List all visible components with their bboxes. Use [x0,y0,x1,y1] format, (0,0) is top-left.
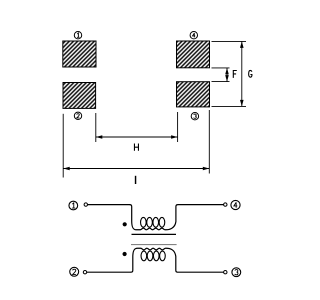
pad label 4 [190,32,197,39]
pad 4 (top-right, hatched) [177,41,210,68]
pad 3 (bottom-right, hatched) [177,82,210,107]
H arrows [96,135,103,139]
dim H line [96,136,178,138]
core line lower [131,244,177,246]
schematic label 1 [69,201,78,210]
pad 2 (bottom-left, hatched) [63,83,96,109]
wire winding 1-4 to pin 4 [178,204,224,206]
wire pin 2 to winding 2-3 [87,271,131,273]
winding 1-4 (top coil) [130,205,178,230]
dim F extension lines [212,67,230,69]
label F [233,71,237,78]
winding 2-3 (bottom coil) [131,248,178,272]
dim I line [63,168,209,170]
schematic label 2 [70,267,79,276]
label G [249,70,252,77]
label H [134,144,138,151]
terminal pin 4 [224,203,227,206]
polarity dot winding 1-4 [123,222,127,226]
terminal pin 2 [83,271,86,274]
dim F line [226,68,228,82]
terminal pin 3 [224,271,227,274]
pad label 1 [74,32,81,39]
dim H extension lines [95,113,97,142]
wire pin 1 to winding 1-4 [88,204,130,206]
pad 1 (top-left, hatched) [63,41,96,67]
core line upper [132,233,177,235]
winding 2-3 loops [141,251,147,261]
schematic label 4 [231,200,240,209]
pad label 2 [74,112,81,119]
dim G line [241,41,243,106]
schematic label 3 [232,268,241,277]
polarity dot winding 2-3 [123,252,127,256]
F arrows [225,68,229,75]
pad label 3 [191,113,198,120]
dim G extension lines [212,40,247,42]
winding 1-4 loops [141,217,147,227]
I arrows [63,167,69,171]
dim I extension lines [62,114,64,178]
label I [135,176,137,184]
wire winding 2-3 to pin 3 [178,271,224,273]
G arrows [240,41,244,48]
terminal pin 1 [84,203,87,206]
